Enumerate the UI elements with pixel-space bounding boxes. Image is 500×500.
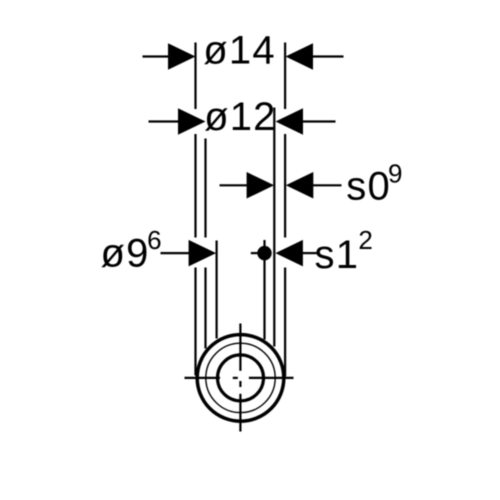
svg-text:ø12: ø12 <box>204 95 277 139</box>
svg-text:ø14: ø14 <box>203 29 276 73</box>
svg-text:9: 9 <box>388 159 402 189</box>
svg-text:2: 2 <box>358 225 372 255</box>
svg-text:ø9: ø9 <box>101 231 150 275</box>
svg-text:6: 6 <box>147 225 161 255</box>
svg-text:s0: s0 <box>346 165 391 209</box>
svg-text:s1: s1 <box>315 233 360 277</box>
